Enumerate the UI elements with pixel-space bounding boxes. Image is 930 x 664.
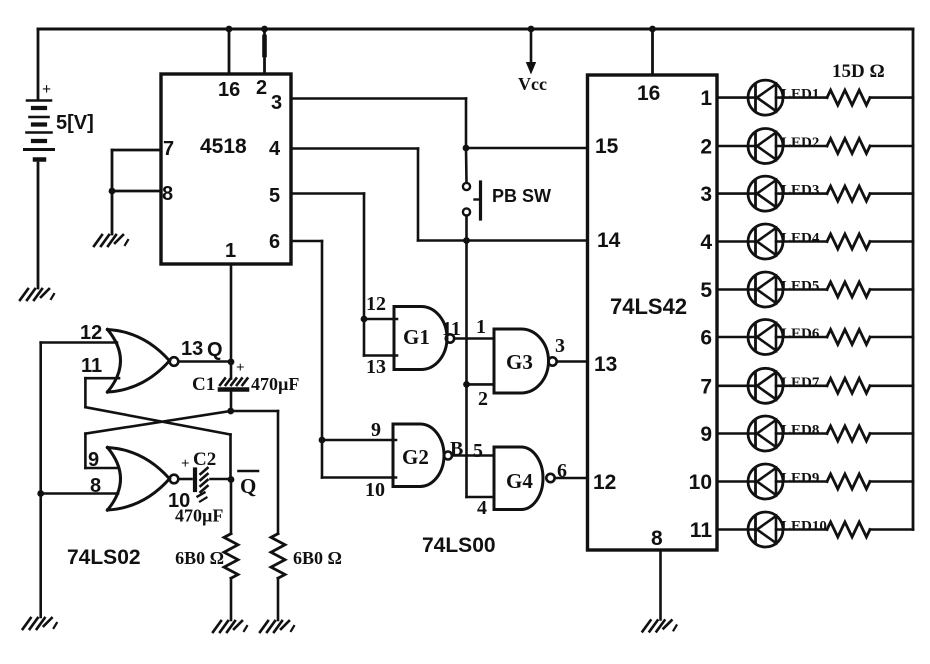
svg-text:3: 3 xyxy=(555,335,565,357)
resistor 150 ohm row 3 xyxy=(776,186,913,201)
wire: C1 node to right 680 resistor xyxy=(231,411,278,534)
wire: PB SW bottom to pin14 / G3.2 / G4.4 column xyxy=(467,216,495,498)
svg-text:11: 11 xyxy=(81,355,102,377)
NAND gate G2 (74LS00) xyxy=(393,424,452,487)
LED2 xyxy=(748,129,783,164)
wire: N1 output Q row xyxy=(178,359,234,366)
svg-text:LED9: LED9 xyxy=(781,471,819,487)
svg-text:12: 12 xyxy=(366,293,386,315)
LED5 xyxy=(748,272,783,307)
svg-text:11: 11 xyxy=(442,318,461,340)
wire: top rail to U1 pin 16 xyxy=(226,26,233,74)
svg-text:1: 1 xyxy=(700,87,712,110)
svg-text:5: 5 xyxy=(700,279,712,302)
resistor 150 ohm row 10 xyxy=(776,522,913,537)
svg-text:4: 4 xyxy=(700,231,712,254)
wire: G1 output to G3 input 1 xyxy=(454,337,494,340)
svg-text:G3: G3 xyxy=(506,350,533,374)
wire: U1 pin 1 down to Q node xyxy=(230,264,233,362)
svg-text:4518: 4518 xyxy=(200,135,247,158)
svg-text:6B0 Ω: 6B0 Ω xyxy=(293,548,342,568)
svg-text:C2: C2 xyxy=(193,449,216,470)
svg-text:G2: G2 xyxy=(402,445,429,469)
LED10 xyxy=(748,512,783,547)
LED6 xyxy=(748,320,783,355)
ground (left input bus) xyxy=(23,618,57,629)
svg-text:2: 2 xyxy=(256,77,267,99)
LED9 xyxy=(748,464,783,499)
wire: U1 pins 7/8 to ground xyxy=(111,191,114,234)
wire: top rail to U1 pin 2 xyxy=(261,26,268,74)
NAND gate G1 (74LS00) xyxy=(394,307,454,370)
NAND gate G3 (74LS00) xyxy=(494,329,557,393)
IC U2 74LS42 decoder body xyxy=(588,75,718,550)
svg-text:5[V]: 5[V] xyxy=(56,112,94,134)
svg-text:15: 15 xyxy=(595,135,619,158)
capacitor C1 470uF (polarized) xyxy=(220,360,247,411)
LED4 xyxy=(748,224,783,259)
svg-text:G4: G4 xyxy=(506,469,533,493)
svg-text:1: 1 xyxy=(225,240,236,262)
wire: G3 output to 74LS42 pin 13 xyxy=(557,360,588,363)
NOR gate N1 (74LS02 top) xyxy=(108,330,179,393)
svg-text:C1: C1 xyxy=(192,374,215,395)
LED7 xyxy=(748,368,783,403)
resistor 150 ohm row 8 xyxy=(776,426,913,441)
svg-text:470µF: 470µF xyxy=(251,374,299,394)
Vcc supply arrow xyxy=(518,26,547,94)
LED8 xyxy=(748,416,783,451)
svg-text:12: 12 xyxy=(80,322,102,344)
wire: cross-coupling diagonal B (from C1 node to N2 input 9) xyxy=(85,408,234,468)
resistor 150 ohm row 7 xyxy=(776,378,913,393)
wire: U2 pin 5 to LED5 xyxy=(717,288,756,291)
svg-text:470µF: 470µF xyxy=(175,506,223,526)
node: PB SW / pin14 junction xyxy=(463,237,470,244)
wire: G2 output to G4 input 5 xyxy=(452,454,494,457)
wire: N1 input 11 from cross-coupling xyxy=(85,378,119,407)
svg-text:74LS02: 74LS02 xyxy=(67,546,141,569)
svg-text:5: 5 xyxy=(269,185,280,207)
svg-text:LED6: LED6 xyxy=(781,326,820,342)
resistor 150 ohm row 1 xyxy=(776,90,913,105)
svg-text:PB SW: PB SW xyxy=(492,186,551,206)
wire: U1 pin 3 to 74LS42 pin 15 net xyxy=(291,99,588,152)
svg-text:74LS00: 74LS00 xyxy=(422,534,496,557)
wire: U2 pin 8 to ground xyxy=(659,550,662,619)
svg-text:11: 11 xyxy=(690,519,713,542)
wire: G4 output to 74LS42 pin 12 xyxy=(555,477,588,480)
svg-text:LED5: LED5 xyxy=(781,279,819,295)
ground (U2 pin 8) xyxy=(643,620,677,631)
svg-text:8: 8 xyxy=(651,527,663,550)
svg-text:LED4: LED4 xyxy=(781,231,820,247)
ground (U1 pins 7/8) xyxy=(94,235,128,246)
NOR gate N2 (74LS02 bottom) xyxy=(108,448,179,511)
capacitor C2 470uF (polarized) xyxy=(178,456,231,502)
svg-text:13: 13 xyxy=(366,356,386,378)
svg-text:+: + xyxy=(42,81,51,98)
svg-text:12: 12 xyxy=(593,471,616,494)
LED3 xyxy=(748,176,783,211)
wire: U2 pin 6 to LED6 xyxy=(717,336,756,339)
svg-text:13: 13 xyxy=(594,353,617,376)
wire: U2 pin 3 to LED3 xyxy=(717,192,756,195)
resistor 150 ohm row 5 xyxy=(776,282,913,297)
svg-text:7: 7 xyxy=(163,138,174,160)
svg-text:13: 13 xyxy=(181,338,203,360)
wire: U2 pin 1 to LED1 xyxy=(717,96,756,99)
ground (right 680 resistor) xyxy=(260,621,294,632)
svg-text:10: 10 xyxy=(689,471,712,494)
wire: U2 pin 9 to LED8 xyxy=(717,432,756,435)
svg-text:G1: G1 xyxy=(403,325,430,349)
svg-text:15D Ω: 15D Ω xyxy=(832,61,885,82)
wire: +5V top supply rail xyxy=(38,29,913,100)
svg-text:LED2: LED2 xyxy=(781,135,819,151)
pushbutton switch PB SW xyxy=(463,148,551,219)
NAND gate G4 (74LS00) xyxy=(494,447,555,510)
wire: U1 pin 5 to G1 inputs xyxy=(291,194,397,356)
svg-text:9: 9 xyxy=(371,419,381,441)
wire: U1 pin 7 to pin 8 junction xyxy=(109,150,161,194)
svg-text:Q: Q xyxy=(207,339,223,361)
svg-text:6: 6 xyxy=(269,231,280,253)
svg-text:1: 1 xyxy=(476,316,486,338)
wire: U2 pin 11 to LED10 xyxy=(717,528,756,531)
svg-text:4: 4 xyxy=(477,497,487,519)
IC U1 4518 counter body xyxy=(161,74,291,264)
svg-text:14: 14 xyxy=(597,229,621,252)
svg-text:Q: Q xyxy=(240,474,256,498)
svg-text:LED1: LED1 xyxy=(781,87,819,103)
svg-text:6B0 Ω: 6B0 Ω xyxy=(175,548,224,568)
svg-text:LED8: LED8 xyxy=(781,423,819,439)
svg-text:+: + xyxy=(181,456,190,472)
node: G3 input 2 junction xyxy=(463,381,494,388)
svg-text:9: 9 xyxy=(700,423,712,446)
svg-text:10: 10 xyxy=(365,479,385,501)
svg-text:6: 6 xyxy=(700,327,712,350)
svg-text:LED7: LED7 xyxy=(781,375,820,391)
wire: top rail to U2 pin 16 xyxy=(649,26,656,75)
resistor 150 ohm row 6 xyxy=(776,330,913,345)
svg-text:LED10: LED10 xyxy=(781,519,827,535)
ground (battery) xyxy=(20,289,54,300)
svg-text:Vcc: Vcc xyxy=(518,74,547,94)
svg-text:8: 8 xyxy=(162,183,173,205)
wire: U2 pin 10 to LED9 xyxy=(717,480,756,483)
wire: U2 pin 2 to LED2 xyxy=(717,145,756,148)
resistor 150 ohm row 4 xyxy=(776,234,913,249)
ground (left 680 resistor) xyxy=(213,621,247,632)
svg-text:16: 16 xyxy=(637,82,660,105)
svg-text:3: 3 xyxy=(271,92,282,114)
wire: U1 pin 6 to G2 inputs xyxy=(291,241,396,478)
wire: cross-coupling diagonal A (to Qbar column) xyxy=(85,407,230,479)
svg-text:74LS42: 74LS42 xyxy=(610,294,687,319)
resistor R2 680 ohm (Qbar to ground) xyxy=(224,480,238,621)
svg-text:2: 2 xyxy=(478,388,488,410)
resistor 150 ohm row 2 xyxy=(776,139,913,154)
LED1 xyxy=(748,80,783,115)
resistor 150 ohm row 9 xyxy=(776,474,913,489)
svg-text:+: + xyxy=(236,360,245,376)
svg-text:LED3: LED3 xyxy=(781,183,819,199)
wire: U2 pin 4 to LED4 xyxy=(717,240,756,243)
wire: left bus N1 input12 / N2 input8 to ground xyxy=(37,343,118,618)
svg-text:7: 7 xyxy=(700,375,712,398)
resistor R3 680 ohm (C1 node to ground) xyxy=(271,534,285,620)
svg-text:2: 2 xyxy=(700,136,712,159)
svg-text:4: 4 xyxy=(269,138,281,160)
wire: U2 pin 7 to LED7 xyxy=(717,384,756,387)
battery B1 5[V] xyxy=(25,81,94,160)
svg-text:16: 16 xyxy=(218,79,240,101)
node Qbar junction and label xyxy=(228,471,258,498)
wire: battery negative to ground xyxy=(37,163,40,288)
svg-text:5: 5 xyxy=(473,440,483,462)
svg-text:3: 3 xyxy=(700,183,712,206)
wire: U1 pin 4 to 74LS42 pin 14 net xyxy=(291,149,588,241)
wire: right vertical LED return bus xyxy=(912,29,915,530)
